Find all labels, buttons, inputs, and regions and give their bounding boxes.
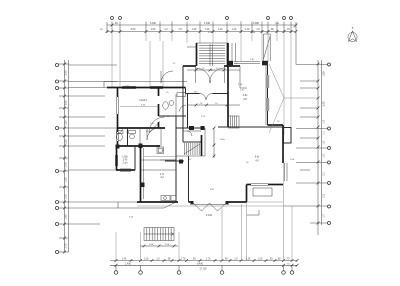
svg-text:1.60: 1.60	[65, 214, 68, 219]
exterior stair dimension row	[140, 244, 178, 247]
svg-text:1.30: 1.30	[192, 28, 197, 31]
exterior staircase (bottom)	[144, 228, 174, 241]
top dimension text row	[99, 22, 290, 31]
bath partition walls	[116, 94, 186, 150]
corridor east wall	[188, 156, 190, 202]
svg-text:1.40: 1.40	[232, 28, 237, 31]
top axis bubbles	[111, 17, 293, 20]
left dimension lines	[59, 60, 69, 253]
windows top-right bedroom	[234, 61, 269, 111]
kitchen counter and sink	[140, 147, 176, 201]
svg-text:1.2: 1.2	[173, 63, 176, 65]
hall wall below stair	[165, 160, 184, 164]
window in top-left wall	[122, 86, 163, 88]
svg-text:2.40: 2.40	[240, 90, 244, 92]
svg-text:2.900: 2.900	[253, 22, 260, 25]
bottom dimension text row	[122, 259, 291, 271]
right axis bubbles	[328, 63, 331, 224]
svg-text:2.70: 2.70	[65, 243, 68, 248]
svg-text:2.40: 2.40	[123, 160, 128, 162]
svg-text:1.10: 1.10	[144, 259, 149, 261]
outer wall: top main (y=88)	[107, 88, 228, 94]
interior wall x=183/x=176 corridor	[176, 88, 183, 202]
svg-text:W.C: W.C	[194, 92, 198, 94]
svg-text:.9: .9	[235, 63, 237, 65]
north arrow	[348, 27, 357, 41]
kitchen walls	[137, 146, 178, 202]
stair treads (top staircase)	[199, 44, 225, 66]
svg-text:.9: .9	[162, 150, 164, 152]
svg-text:1.50: 1.50	[65, 177, 68, 182]
living interior dimension line	[213, 127, 216, 158]
room labels	[120, 32, 295, 179]
svg-text:1.0: 1.0	[215, 103, 218, 105]
bedroom1 door arc	[149, 117, 165, 133]
lower stair flight	[229, 116, 240, 128]
interior secondary lines	[160, 88, 247, 160]
misc right-bottom extension geometry	[137, 170, 310, 215]
svg-text:3.6x4.2: 3.6x4.2	[139, 99, 148, 102]
left dimension text column	[65, 70, 68, 248]
svg-text:3.00: 3.00	[131, 28, 136, 31]
svg-text:.90: .90	[277, 121, 280, 123]
svg-text:4.50: 4.50	[210, 189, 214, 191]
bottom dimension lines	[110, 259, 298, 267]
svg-text:2.100: 2.100	[206, 214, 213, 217]
closet above stair	[183, 131, 201, 136]
svg-text:1.10: 1.10	[245, 28, 250, 31]
svg-text:1.50x: 1.50x	[219, 139, 225, 141]
svg-text:2.40: 2.40	[65, 162, 68, 167]
duct shaft above bedroom	[264, 34, 271, 61]
entry double door arcs	[196, 66, 225, 83]
svg-text:1.40: 1.40	[65, 194, 68, 199]
hall east wall	[188, 94, 205, 131]
right wall with fireplace bump	[268, 125, 292, 181]
svg-text:1.80: 1.80	[65, 120, 68, 125]
svg-text:.70: .70	[293, 27, 296, 29]
corridor door arc (hall to west wing)	[161, 71, 173, 83]
bottom extension verticals	[116, 158, 292, 271]
bath 1 fixtures (left bath)	[117, 128, 160, 146]
bath 2 fixtures (top bath)	[163, 93, 186, 112]
svg-text:5.400: 5.400	[150, 22, 157, 25]
porch / terrace lines bottom-left	[118, 202, 176, 208]
top dimension lines	[106, 22, 298, 65]
svg-text:1.540: 1.540	[204, 22, 211, 25]
svg-text:1.30: 1.30	[246, 259, 251, 261]
right extension lines	[283, 65, 330, 224]
interior staircase (to 2F)	[176, 135, 205, 156]
svg-text:1.70: 1.70	[181, 259, 186, 261]
left axis bubbles	[55, 63, 58, 253]
svg-text:17.100: 17.100	[199, 269, 207, 271]
scattered annotation texts	[125, 27, 295, 192]
svg-text:6.0x: 6.0x	[255, 156, 260, 159]
svg-text:1.50: 1.50	[151, 28, 156, 31]
left extension lines into plan	[69, 65, 138, 224]
entry internal dimension row	[187, 68, 240, 71]
svg-text:4.8: 4.8	[243, 98, 247, 101]
small room bottom-left	[116, 145, 136, 172]
svg-text:3.6x: 3.6x	[243, 94, 248, 97]
dining dimension line	[187, 103, 240, 106]
svg-text:1.400: 1.400	[125, 263, 131, 265]
svg-text:1.50x: 1.50x	[122, 157, 128, 159]
interior wall y=128	[117, 127, 283, 128]
roof overhang line above west wing	[104, 82, 187, 88]
bottom axis bubbles	[114, 271, 294, 275]
svg-text:1.40: 1.40	[122, 259, 127, 261]
right dimension text column	[323, 71, 326, 218]
svg-text:1.50: 1.50	[150, 123, 154, 125]
bedroom top-right walls	[228, 43, 269, 127]
svg-text:1.30: 1.30	[205, 28, 210, 31]
svg-text:1.54: 1.54	[201, 116, 205, 118]
top grid extension lines into plan	[112, 33, 291, 135]
svg-text:2.1m: 2.1m	[122, 163, 127, 165]
stair tower outline	[187, 43, 236, 66]
svg-text:1.50: 1.50	[125, 86, 129, 88]
right side porch roof lines	[269, 64, 318, 133]
dining double door arcs	[200, 94, 213, 101]
svg-text:1.80: 1.80	[323, 71, 326, 76]
svg-text:.90: .90	[200, 103, 203, 105]
right dimension lines	[317, 60, 322, 235]
svg-text:1.40: 1.40	[218, 28, 223, 31]
living room south wall	[189, 183, 284, 202]
svg-text:.90: .90	[246, 162, 249, 164]
svg-text:3.60: 3.60	[65, 100, 68, 105]
svg-text:1.2: 1.2	[126, 132, 129, 134]
svg-text:3.00: 3.00	[65, 70, 68, 75]
svg-text:3.00: 3.00	[323, 101, 326, 106]
svg-text:1.20: 1.20	[258, 259, 263, 261]
svg-text:8.400: 8.400	[197, 263, 203, 265]
svg-text:1.50: 1.50	[65, 139, 68, 144]
interior wall x=160	[159, 87, 162, 146]
left outer wall x=113	[115, 87, 118, 170]
svg-text:2.40: 2.40	[250, 59, 254, 61]
svg-text:1.0: 1.0	[167, 116, 170, 118]
bay window (south)	[129, 201, 229, 219]
entry hall walls	[183, 66, 240, 88]
svg-text:1.70: 1.70	[206, 259, 211, 261]
